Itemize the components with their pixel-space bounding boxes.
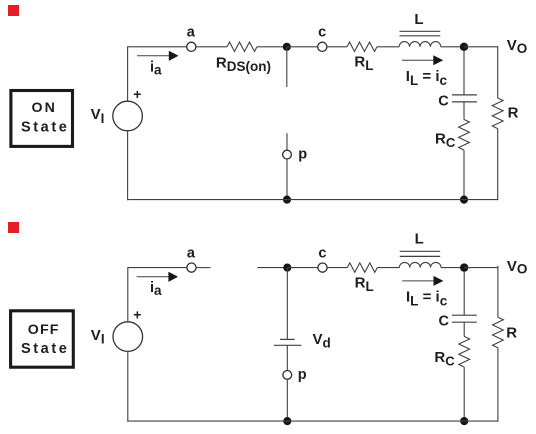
wire: RC down to bottom (bottom circuit) [463,367,465,421]
junction dot middle bottom (bottom circuit) [283,417,291,425]
svg-text:RDS(on): RDS(on) [216,55,271,74]
svg-text:IL = ic: IL = ic [406,68,448,88]
svg-text:VI: VI [91,327,105,347]
svg-text:p: p [298,147,307,163]
capacitor C (bottom) plates [452,314,477,316]
svg-text:+: + [133,86,141,102]
wire: junction to node c (bottom) [287,267,318,269]
wire: source down to bottom wire (top) [127,131,129,200]
svg-text:RL: RL [355,274,374,294]
svg-text:p: p [298,367,307,383]
wire: cap to RC (top) [463,102,465,120]
ON State label box [11,91,73,147]
svg-text:c: c [318,25,326,41]
battery Vd plate long (bottom) [274,344,301,346]
wire: node c to RL (bottom) [327,267,347,269]
wire: RDS(on) to node junction [257,46,287,48]
svg-text:ON: ON [32,100,57,116]
wire: resume after open switch to junction (bottom) [258,267,288,269]
wire: top horizontal from corner to node a [127,46,187,48]
svg-text:RL: RL [354,54,373,74]
svg-text:State: State [21,119,69,135]
svg-text:R: R [508,104,519,121]
resistor RL (top) [347,42,377,51]
current arrow IL (bottom) [402,280,434,282]
wire: junction to node c [287,46,318,48]
svg-text:a: a [187,25,196,41]
junction dot middle top (bottom circuit) [283,264,291,272]
wire: inductor to output junction (bottom) [441,267,464,269]
junction dot at output node (top) [460,43,468,51]
node a (bottom) [187,263,196,272]
wire: cap branch down from output junction (top) [463,50,465,95]
resistor R (bottom) vertical zigzag [493,317,504,348]
wire: top horizontal of bottom circuit to node a [127,267,187,269]
wire: open stub right of node a (bottom) [196,267,210,269]
battery Vd plate short (bottom) [280,338,295,340]
voltage source VI (bottom) [113,322,143,352]
wire: RL to inductor (bottom) [377,267,399,269]
wire: RC down to bottom (top circuit) [463,150,465,200]
wire: output junction to right corner (bottom) [464,267,498,269]
current arrow ia (top) [137,55,170,57]
resistor RDS(on) [227,42,257,51]
svg-text:L: L [414,11,423,28]
wire: bottom-left vertical from source up [127,268,129,322]
wire: output junction to right corner [464,46,498,48]
resistor RC (top) vertical zigzag [459,120,470,151]
wire: right vertical from VO corner down to R (bottom) [497,266,499,317]
wire: cap branch down from output junction (bottom) [463,271,465,315]
junction dot bottom cap branch (top circuit) [460,196,468,204]
svg-text:+: + [133,307,141,323]
svg-text:ia: ia [150,280,162,298]
svg-text:C: C [438,93,449,109]
svg-text:a: a [187,245,196,261]
inductor core lines (bottom) [400,250,441,252]
wire: RL to inductor [377,46,399,48]
red marker square bottom figure [8,222,19,233]
inductor L (bottom) coil [399,262,441,267]
wire: middle branch above p (top) [286,133,288,150]
junction dot middle bottom (top circuit) [283,196,291,204]
wire: below p to bottom wire (top) [286,159,288,200]
node p (bottom) [283,371,292,380]
svg-text:L: L [415,231,424,248]
svg-text:RC: RC [435,130,456,150]
svg-text:R: R [506,325,517,342]
wire: R down to bottom right corner (bottom) [497,348,499,422]
voltage source VI (top) [113,101,143,131]
svg-text:VO: VO [507,258,528,277]
node a (top) [187,42,196,51]
wire: below p to bottom wire (bottom) [286,379,288,421]
wire: source down to bottom wire (bottom) [127,351,129,421]
junction dot at output node (bottom) [460,263,468,271]
wire: top-left vertical from source up [127,47,129,101]
wire: bottom horizontal (top circuit) [127,199,498,201]
capacitor C (top) plates [452,94,477,96]
wire: right vertical from VO corner down to R (top) [497,46,499,98]
resistor RL (bottom) [347,263,377,272]
svg-text:IL = ic: IL = ic [406,288,448,308]
svg-text:Vd: Vd [313,331,331,351]
wire: battery to node p (bottom) [286,345,288,370]
wire: cap to RC (bottom) [463,322,465,336]
current arrow IL (top) [402,59,434,61]
red marker square top figure [8,5,19,16]
node c (top) [318,42,327,51]
svg-text:State: State [21,341,69,357]
junction dot bottom cap branch (bottom circuit) [460,417,468,425]
inductor core lines (top) [400,30,441,32]
svg-text:RC: RC [434,349,455,369]
resistor RC (bottom) vertical zigzag [459,336,470,367]
svg-text:VI: VI [91,106,105,126]
node p (top) [283,150,292,159]
wire: inductor to output junction [441,46,464,48]
svg-text:c: c [318,245,326,261]
wire: node a to RDS(on) [196,46,227,48]
svg-text:VO: VO [507,37,528,56]
node c (bottom) [318,263,327,272]
svg-text:C: C [439,313,450,329]
wire: middle branch stub below junction (top) [286,47,288,87]
wire: node c to RL [327,46,347,48]
OFF State label box [11,311,74,367]
current arrow ia (bottom) [137,276,170,278]
inductor L (top) coil [399,42,441,47]
wire: middle branch junction down to battery (bottom) [286,268,288,339]
junction dot after RDS(on) [283,43,291,51]
wire: R down to bottom right corner (top) [497,129,499,201]
svg-text:OFF: OFF [28,322,60,338]
wire: bottom horizontal (bottom circuit) [127,420,498,422]
resistor R (top) vertical zigzag [492,98,503,129]
svg-text:ia: ia [150,59,162,77]
